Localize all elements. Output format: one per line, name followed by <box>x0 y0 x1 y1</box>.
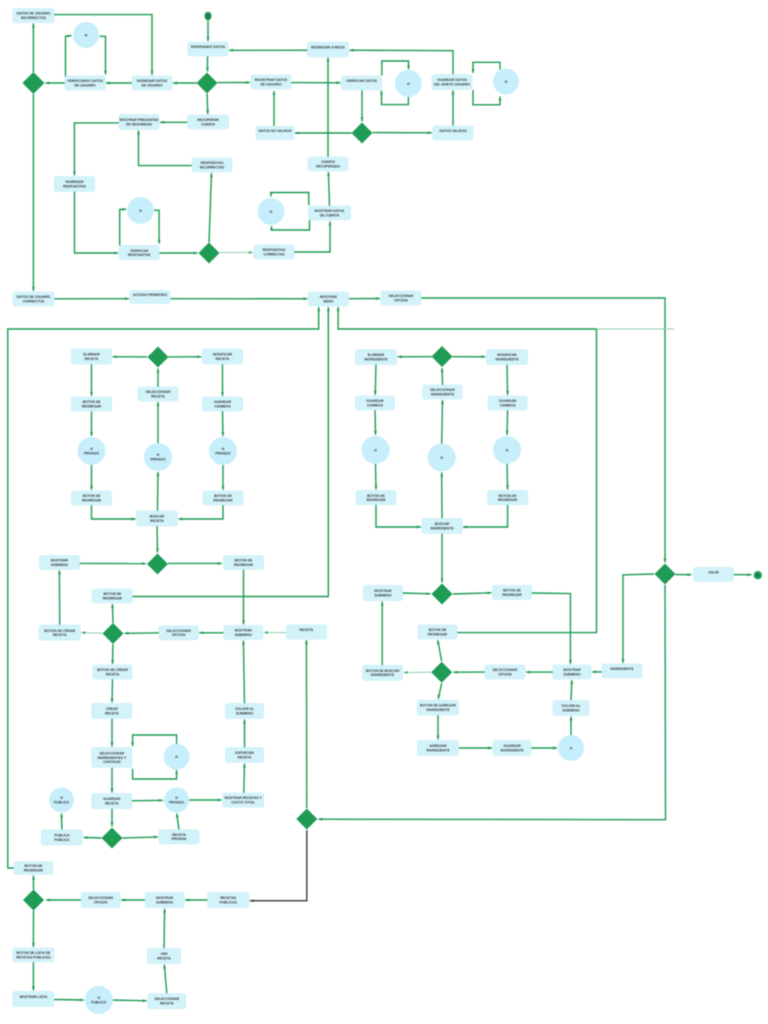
action b9: REGISTRAR DATOS DE USUARIO <box>251 75 291 89</box>
history node c13: H <box>493 69 519 95</box>
wire: decision to RECETA <box>305 640 308 808</box>
wire: loop VERIFICANDO DATOS / H <box>66 35 108 77</box>
wire: VOLVER AL SUBMENU to MOSTRAR SUBMENU <box>242 641 245 704</box>
svg-text:RECETA: RECETA <box>151 395 165 399</box>
wire: decision to BOTON DE REGRESAR <box>32 876 35 890</box>
wire: INGRESAR DATOS to VERIFICANDO DATOS <box>106 82 132 85</box>
action b87: MOSTRAR SUBMENU <box>553 665 591 679</box>
action b33: ELIMINAR RECETA <box>72 349 112 364</box>
svg-text:CAMBIOS: CAMBIOS <box>214 405 231 409</box>
action b31: MOSTRAR MENU <box>308 292 348 306</box>
svg-text:DATOS VALIDOS: DATOS VALIDOS <box>439 129 467 133</box>
action b56: SELECCIONAR INGREDIENTES Y CANTIDAD <box>92 748 132 768</box>
svg-text:REGRESAR: REGRESAR <box>498 498 518 502</box>
decision d46 <box>147 554 168 575</box>
svg-text:SUBMENU: SUBMENU <box>51 563 69 567</box>
wire: MOSTRAR SUBMENU to decision <box>80 562 147 565</box>
wire: PUBLICA to H PUBLICO <box>60 814 63 830</box>
wire: decision to MODIFICAR INGREDIENTE <box>453 355 486 358</box>
history node c93: H <box>558 735 584 761</box>
wire: RECETA to MOSTRAR SUBMENU <box>264 631 287 634</box>
action b37: BOTON DE REGRESAR <box>72 397 112 411</box>
decision d81 <box>432 584 453 605</box>
wire: VER RECETA to MOSTRAR SUBMENU <box>163 909 166 949</box>
wire: decision to RECUPERAR CUENTA <box>206 94 209 115</box>
wire: decision to DATOS CORRECTOS <box>32 94 35 291</box>
wire: exit decision to INGREDIENTE <box>622 574 655 663</box>
wire: GUARDAR CAMBIOS to H <box>506 410 509 435</box>
action b61: MOSTRAR RECETAS Y COSTO TOTAL <box>223 793 264 807</box>
action b101: RECETAS PUBLICAS <box>208 893 249 908</box>
wire: DATOS CORRECTOS to ACCESO PERMITIDO <box>54 297 129 300</box>
wire: BOTON DE CREAR RECETA to MOSTRAR SUBMENU <box>58 571 61 626</box>
svg-text:DE USUARIO: DE USUARIO <box>260 82 282 86</box>
action b65: VOLVER AL SUBMENU <box>226 704 264 719</box>
decision d85 <box>431 662 452 683</box>
action b4: INGRESAR DATOS DE USUARIO <box>132 76 172 90</box>
wire: decision to BOTON DE AGREGAR <box>438 683 442 699</box>
history node c59: H PUBLICO <box>49 788 74 813</box>
svg-text:INCORRECTOS: INCORRECTOS <box>21 16 47 20</box>
wire: MOSTRAR LISTA to H PUBLICO <box>54 999 84 1002</box>
svg-text:RECETAS PUBLICAS: RECETAS PUBLICAS <box>16 955 51 959</box>
svg-text:OPCION: OPCION <box>498 672 512 676</box>
wire: VERIFICAR RESPUESTAS to decision <box>159 252 198 255</box>
history node c104: H PUBLICO <box>85 986 113 1014</box>
wire: BOTON DE REGRESAR to MOSTRAR MENU <box>132 307 329 597</box>
wire: decision to BOTON DE REGRESAR <box>437 640 442 661</box>
wire: decision to INGRESAR DATOS <box>173 82 197 85</box>
action b47: BOTON DE REGRESAR <box>224 556 264 570</box>
svg-text:REGRESAR A INICIO: REGRESAR A INICIO <box>311 46 345 50</box>
svg-text:MOSTRAR LISTA: MOSTRAR LISTA <box>20 995 48 999</box>
wire: MOSTRAR SUBMENU to SELECCIONAR OPCION <box>121 899 145 902</box>
decision d2 <box>352 123 373 144</box>
wire: BOTON DE AGREGAR to AGREGAR INGREDIENTE <box>437 715 440 740</box>
action b54: BOTON DE CREAR RECETA <box>93 665 132 679</box>
action b38: GUARDAR CAMBIOS <box>203 397 243 411</box>
action b20: RESPUESTAS INCORRECTAS <box>192 158 232 172</box>
action b68: ELIMINAR INGREDIENTE <box>356 350 397 365</box>
svg-text:INGREDIENTE: INGREDIENTE <box>371 673 395 677</box>
wire: H to VOLVER AL SUBMENU <box>570 717 573 736</box>
action b102: BOTON DE LISTA DE RECETAS PUBLICAS <box>13 948 54 962</box>
action b6: ESPERANDO DATOS <box>188 42 228 56</box>
wire: loop GUARDAR DATOS / H <box>472 62 502 105</box>
svg-text:PRIVADA: PRIVADA <box>171 837 187 841</box>
history node c22: H <box>127 197 154 224</box>
history node c76: H <box>493 436 521 464</box>
action b66: EXPORTAR RECETA <box>226 748 264 763</box>
wire: H to BOTON DE REGRESAR <box>375 464 378 490</box>
action b25: RESPUESTAS CORRECTAS <box>254 245 294 259</box>
wire: EXPORTAR RECETA to VOLVER AL SUBMENU <box>243 720 246 748</box>
wire: MOSTRAR SUBMENU to decision <box>403 592 431 595</box>
wire: MOSTRAR SUBMENU to SELECCIONAR OPCION <box>526 671 553 674</box>
wire: GUARDAR RECETA to decision <box>111 809 114 827</box>
wire: BUSCAR RECETA to decision <box>156 526 159 553</box>
action b29: DATOS DE USUARIO CORRECTOS <box>13 292 54 306</box>
svg-text:PRIVADO: PRIVADO <box>84 452 100 456</box>
action b73: GUARDAR CAMBIOS <box>488 396 527 410</box>
wire: BUSCAR INGREDIENTE to decision <box>441 534 444 583</box>
action b18: RECUPERAR CUENTA <box>188 115 229 129</box>
svg-text:DATOS NO VALIDOS: DATOS NO VALIDOS <box>258 129 292 133</box>
wire: decision to RESPUESTAS INCORRECTAS <box>209 173 213 243</box>
wire: H to SELECCIONAR INGREDIENTE <box>441 400 444 444</box>
action b12: GUARDAR DATOS DEL NUEVO USUARIO <box>432 75 472 90</box>
svg-text:REGRESAR: REGRESAR <box>24 868 44 872</box>
action b80: MOSTRAR SUBMENU <box>364 586 403 601</box>
wire: decision to RECETA PRIVADA <box>123 836 159 839</box>
wire: BOTON DE REGRESAR bottom to MOSTRAR MENU <box>8 307 320 868</box>
decision d63 <box>102 828 123 849</box>
svg-text:RECETA: RECETA <box>238 755 252 759</box>
wire: H PRIVADO to BOTON DE REGRESAR <box>90 465 93 490</box>
wire: GUARDAR RECETA to H PRIVADO <box>132 799 163 802</box>
svg-text:INCORRECTAS: INCORRECTAS <box>200 166 225 170</box>
svg-text:ACCESO PERMITIDO: ACCESO PERMITIDO <box>133 293 168 297</box>
wire: RECETA PRIVADA to H PRIVADO <box>176 814 179 830</box>
action b49: BOTON DE CREAR RECETA <box>39 625 80 640</box>
wire: loop MOSTRAR DATOS / H <box>270 193 310 231</box>
svg-text:REGRESAR: REGRESAR <box>213 499 233 503</box>
wire: DATOS INCORRECTOS to INGRESAR DATOS <box>54 15 153 75</box>
svg-text:REGRESAR: REGRESAR <box>82 499 102 503</box>
history node c2: H <box>73 22 99 48</box>
action b21: INGRESAR RESPUESTAS <box>55 177 95 192</box>
wire: BOTON DE REGRESAR to MOSTRAR SUBMENU <box>532 593 572 664</box>
start node <box>205 12 212 21</box>
wire: decision to BOTON DE BUSCAR <box>404 671 432 674</box>
svg-text:REGRESAR: REGRESAR <box>366 498 386 502</box>
wire: SELECCIONAR INGREDIENTES to GUARDAR RECETA <box>111 768 114 793</box>
action b17: DATOS VALIDOS <box>433 126 473 140</box>
decision d50 <box>103 623 124 644</box>
svg-text:RECETA: RECETA <box>106 672 120 676</box>
svg-text:RECETA: RECETA <box>85 357 99 361</box>
wire: MOSTRAR RECETAS to EXPORTAR RECETA <box>243 764 246 794</box>
wire: BOTON DE REGRESAR to BUSCAR RECETA <box>179 505 224 521</box>
history node c60: H PRIVADO <box>164 788 189 813</box>
svg-text:REGRESAR: REGRESAR <box>103 596 123 600</box>
action b10: VERIFICAR DATOS <box>342 76 382 90</box>
svg-text:RECETA: RECETA <box>105 711 119 715</box>
action b45: MOSTRAR SUBMENU <box>40 556 80 570</box>
action b106: VER RECETA <box>148 949 181 964</box>
wire: SELECCIONAR INGREDIENTE to decision <box>441 368 444 385</box>
svg-text:SALIR: SALIR <box>708 571 719 575</box>
svg-text:MENU: MENU <box>323 300 334 304</box>
svg-text:CAMBIOS: CAMBIOS <box>500 404 517 408</box>
action b52: MOSTRAR SUBMENU <box>224 626 263 640</box>
action b48: BOTON DE REGRESAR <box>92 589 132 603</box>
action b89: BOTON DE AGREGAR INGREDIENTE <box>418 700 459 715</box>
action b27: MOSTRAR DATOS DE CUENTA <box>309 206 351 220</box>
svg-text:RESPUESTAS: RESPUESTAS <box>63 185 86 189</box>
decision d1 <box>197 73 218 94</box>
action b32: SELECCIONAR OPCION <box>381 291 421 305</box>
wire: decision to BOTON DE CREAR RECETA <box>81 631 102 634</box>
svg-text:CORRECTAS: CORRECTAS <box>263 253 285 257</box>
wire: INGRESAR RESPUESTAS to VERIFICAR RESPUESTAS <box>75 192 119 255</box>
wire: RECETAS PUBLICAS to MOSTRAR SUBMENU <box>185 899 208 902</box>
wire: loop VERIFICAR RESPUESTAS / H <box>120 208 161 246</box>
svg-text:PUBLICO: PUBLICO <box>91 1000 107 1004</box>
action b55: CREAR RECETA <box>92 704 132 719</box>
wire: H PRIVADO to SELECCIONAR RECETA <box>157 402 160 443</box>
wire: GUARDAR CAMBIOS to H PRIVADO <box>222 411 225 436</box>
action b15: DATOS NO VALIDOS <box>256 127 294 140</box>
wire: BOTON DE CREAR RECETA to CREAR RECETA <box>111 679 114 703</box>
wire: BOTON DE REGRESAR to BUSCAR INGREDIENTE <box>463 505 508 529</box>
action b99: SELECCIONAR OPCION <box>81 893 120 908</box>
wire: RESPUESTAS CORRECTAS to MOSTRAR DATOS <box>294 222 331 253</box>
wire: SELECCIONAR RECETA to VER RECETA <box>163 965 167 994</box>
wire: SELECCIONAR OPCION to decision <box>453 671 485 674</box>
action b58: GUARDAR RECETA <box>92 794 132 809</box>
svg-text:ESPERANDO DATOS: ESPERANDO DATOS <box>191 45 226 49</box>
wire: BOTON DE REGRESAR ingredientes to MOSTRAR MENU <box>337 307 597 633</box>
history node c11: H <box>395 70 422 97</box>
wire: SELECCIONAR RECETA to decision <box>157 369 160 388</box>
wire: SALIR to end <box>734 573 752 576</box>
wire: ELIMINAR RECETA to BOTON DE REGRESAR <box>90 364 93 396</box>
action b92: GUARDAR INGREDIENTE <box>493 741 531 756</box>
action b78: BOTON DE REGRESAR <box>488 491 528 505</box>
svg-text:CAMBIOS: CAMBIOS <box>367 404 384 408</box>
svg-text:SUBMENU: SUBMENU <box>562 708 580 712</box>
svg-text:CANTIDAD: CANTIDAD <box>103 760 121 764</box>
svg-text:DE USUARIO: DE USUARIO <box>141 83 163 87</box>
history node c57: H <box>164 744 190 770</box>
svg-text:PRIVADO: PRIVADO <box>169 800 185 804</box>
svg-text:RECETA: RECETA <box>300 628 314 632</box>
svg-text:PRIVADO: PRIVADO <box>150 458 166 462</box>
wire: loop VERIFICAR DATOS / H <box>380 61 410 105</box>
wire: decision to DATOS VALIDOS <box>373 131 433 134</box>
decision d34 <box>148 347 169 368</box>
wire: H PRIVADO to MOSTRAR RECETAS <box>189 799 221 802</box>
wire: H PUBLICO to SELECCIONAR RECETA <box>113 999 147 1002</box>
svg-text:SUBMENU: SUBMENU <box>563 672 581 676</box>
wire: BOTON DE REGRESAR to BUSCAR INGREDIENTE <box>376 505 421 529</box>
action b105: SELECCIONAR RECETA <box>148 994 186 1009</box>
wire: exit decision to SALIR <box>676 573 692 576</box>
history node c26: H <box>258 198 285 225</box>
decision d69 <box>432 346 453 367</box>
wire: loop SELECCIONAR INGREDIENTES / H <box>131 735 178 779</box>
wire: REGISTRAR DATOS to VERIFICAR DATOS <box>291 81 341 84</box>
action b51: SELECCIONAR OPCION <box>159 626 198 640</box>
svg-text:RECETA: RECETA <box>150 519 164 523</box>
wire: MODIFICAR RECETA to GUARDAR CAMBIOS <box>221 364 224 396</box>
svg-text:REGRESAR: REGRESAR <box>234 563 254 567</box>
wire: decision to DATOS NO VALIDOS <box>295 132 352 135</box>
svg-text:INGREDIENTE: INGREDIENTE <box>426 748 450 752</box>
end node <box>754 571 762 579</box>
action b30: ACCESO PERMITIDO <box>130 291 170 304</box>
wire: H to BOTON DE REGRESAR <box>506 464 509 490</box>
wire: decision to RECETAS PUBLICAS black <box>250 830 307 902</box>
wire: AGREGAR INGREDIENTE to GUARDAR INGREDIENTE <box>459 747 492 750</box>
svg-text:SUBMENU: SUBMENU <box>374 593 392 597</box>
action b3: VERIFICANDO DATOS DE USUARIO <box>65 76 105 90</box>
decision d3 <box>199 243 220 264</box>
wire: decision to BOTON DE REGRESAR <box>453 592 492 595</box>
action b14: REGRESAR A INICIO <box>308 42 349 57</box>
action b28: CUENTA RECUPERADA <box>308 157 348 171</box>
svg-text:INGREDIENTE: INGREDIENTE <box>500 748 524 752</box>
wire: H PRIVADO to BOTON DE REGRESAR <box>222 465 225 490</box>
wire: BOTON DE REGRESAR to H PRIVADO <box>90 411 93 436</box>
wire: decision to PUBLICA <box>84 836 102 839</box>
wire: MOSTRAR SUBMENU to SELECCIONAR OPCION <box>199 631 224 634</box>
svg-text:INGREDIENTE: INGREDIENTE <box>610 667 634 671</box>
svg-text:RECETA: RECETA <box>216 357 230 361</box>
wire: ESPERANDO DATOS to decision <box>206 56 209 72</box>
svg-text:PUBLICO: PUBLICO <box>54 800 70 804</box>
wire: BOTON DE REGRESAR to MOSTRAR SUBMENU <box>242 570 245 625</box>
wire: SELECCIONAR OPCION to decision <box>125 632 160 635</box>
wire: DATOS VALIDOS to GUARDAR DATOS <box>452 91 455 126</box>
action b97: BOTON DE REGRESAR <box>14 862 53 875</box>
decision d0 <box>22 72 44 94</box>
wire: ELIMINAR INGREDIENTE to GUARDAR CAMBIOS <box>374 365 377 396</box>
svg-text:INGREDIENTE: INGREDIENTE <box>430 526 454 530</box>
action b83: BOTON DE REGRESAR <box>418 625 457 639</box>
wire: VERIFICANDO DATOS to decision <box>46 82 66 85</box>
history node c40: H PRIVADO <box>144 443 172 471</box>
wire: REGRESAR A INICIO to ESPERANDO DATOS <box>229 49 308 52</box>
svg-text:SUBMENU: SUBMENU <box>235 633 253 637</box>
action b35: MODIFICAR RECETA <box>203 349 243 364</box>
svg-text:RECETA: RECETA <box>160 1001 174 1005</box>
wire: GUARDAR CAMBIOS to H <box>374 410 377 435</box>
wire: BOTON DE LISTA to MOSTRAR LISTA <box>32 962 35 991</box>
svg-text:CUENTA: CUENTA <box>201 122 215 126</box>
action b71: SELECCIONAR INGREDIENTE <box>423 385 462 399</box>
wire: BUSCAR RECETA to H PRIVADO <box>157 472 160 511</box>
svg-text:OPCION: OPCION <box>94 900 108 904</box>
svg-text:INGREDIENTE: INGREDIENTE <box>495 358 519 362</box>
wire: CREAR RECETA to SELECCIONAR INGREDIENTES <box>111 719 114 747</box>
action b82: BOTON DE REGRESAR <box>493 586 532 600</box>
wire: RECUPERAR CUENTA to MOSTRAR PREGUNTAS <box>160 121 188 124</box>
action b64: RECETA PRIVADA <box>159 830 199 844</box>
svg-text:DE USUARIO: DE USUARIO <box>74 83 96 87</box>
wire: BOTON DE REGRESAR to BUSCAR RECETA <box>92 505 136 521</box>
svg-text:OPCION: OPCION <box>394 299 408 303</box>
wire: INGREDIENTE to MOSTRAR SUBMENU <box>592 670 602 673</box>
wire: GUARDAR INGREDIENTE to H <box>531 747 557 750</box>
wire: decision to MODIFICAR RECETA <box>169 355 202 358</box>
wire: BUSCAR INGREDIENTE to H <box>440 473 443 519</box>
svg-text:PUBLICAS: PUBLICAS <box>220 900 238 904</box>
decision d98 <box>23 890 44 911</box>
action b84: BOTON DE BUSCAR INGREDIENTE <box>363 665 403 680</box>
wire: decision to BOTON DE REGRESAR <box>168 562 222 565</box>
svg-text:SUBMENU: SUBMENU <box>236 711 254 715</box>
wire: decision to ELIMINAR RECETA <box>113 355 148 358</box>
wire: MOSTRAR PREGUNTAS to INGRESAR RESPUESTAS <box>73 123 119 176</box>
action b62: PUBLICA PUBLICA <box>41 830 82 845</box>
wire: decision to DATOS INCORRECTOS <box>32 24 35 73</box>
wire: SELECCIONAR OPCION to decision <box>46 899 81 902</box>
svg-text:DEL NUEVO USUARIO: DEL NUEVO USUARIO <box>434 82 471 86</box>
action b42: BOTON DE REGRESAR <box>72 491 112 505</box>
wire: DATOS NO VALIDOS to REGISTRAR DATOS <box>273 91 276 126</box>
svg-text:DE SEGURIDAD: DE SEGURIDAD <box>126 122 153 126</box>
wire: decision to REGISTRAR DATOS <box>218 81 251 84</box>
svg-text:VERIFICAR DATOS: VERIFICAR DATOS <box>346 79 378 83</box>
wire: start to ESPERANDO DATOS <box>207 21 210 42</box>
wire: RESPUESTAS INCORRECTAS to MOSTRAR PREGUNTAS <box>137 131 192 166</box>
action b19: MOSTRAR PREGUNTAS DE SEGURIDAD <box>119 115 159 130</box>
svg-text:RESPUESTAS: RESPUESTAS <box>128 253 151 257</box>
history node c74: H <box>362 436 390 464</box>
wire: decision to BOTON DE LISTA <box>32 911 35 948</box>
decision d94 <box>655 564 676 585</box>
wire: GUARDAR DATOS to REGRESAR A INICIO <box>350 49 454 75</box>
wire: MOSTRAR DATOS to CUENTA RECUPERADA <box>327 172 330 206</box>
wire: faint line right of ingredient return <box>597 328 675 330</box>
action b70: MODIFICAR INGREDIENTE <box>487 350 528 365</box>
history node c39: H PRIVADO <box>78 437 106 465</box>
action b103: MOSTRAR LISTA <box>13 992 54 1007</box>
action b86: SELECCIONAR OPCION <box>485 665 525 679</box>
svg-text:CORRECTOS: CORRECTOS <box>23 300 45 304</box>
action b1: DATOS DE USUARIO INCORRECTOS <box>13 9 54 23</box>
action b23: VERIFICAR RESPUESTAS <box>119 246 159 260</box>
svg-text:PUBLICA: PUBLICA <box>54 838 70 842</box>
action b44: BUSCAR RECETA <box>137 511 178 526</box>
wire: decision to BOTON DE REGRESAR <box>111 604 114 623</box>
action b88: INGREDIENTE <box>602 664 642 678</box>
wire: decision to ELIMINAR INGREDIENTE <box>398 355 432 358</box>
svg-text:COSTO TOTAL: COSTO TOTAL <box>231 800 255 804</box>
svg-text:RECUPERADA: RECUPERADA <box>316 165 340 169</box>
history node c75: H <box>428 444 456 472</box>
action b90: VOLVER AL SUBMENU <box>553 701 589 716</box>
action b43: BOTON DE REGRESAR <box>203 491 243 505</box>
svg-text:REGRESAR: REGRESAR <box>502 593 522 597</box>
svg-text:OPCION: OPCION <box>172 633 186 637</box>
svg-text:RECETA: RECETA <box>105 801 119 805</box>
action b79: BUSCAR INGREDIENTE <box>422 519 462 534</box>
wire: VOLVER AL SUBMENU to MOSTRAR SUBMENU <box>570 680 573 701</box>
svg-text:REGRESAR: REGRESAR <box>82 405 102 409</box>
wire: BOTON DE BUSCAR to MOSTRAR SUBMENU <box>381 602 384 666</box>
action b36: SELECCIONAR RECETA <box>138 387 178 401</box>
wire: decision to RESPUESTAS CORRECTAS <box>220 251 254 254</box>
wire: MODIFICAR INGREDIENTE to GUARDAR CAMBIOS <box>506 365 509 396</box>
svg-text:INGREDIENTE: INGREDIENTE <box>431 393 455 397</box>
svg-text:DE CUENTA: DE CUENTA <box>320 214 340 218</box>
wire: MOSTRAR MENU to SELECCIONAR OPCION <box>349 297 380 300</box>
action b95: SALIR <box>694 568 734 582</box>
action b91: AGREGAR INGREDIENTE <box>418 741 459 756</box>
action b100: MOSTRAR SUBMENU <box>145 893 184 908</box>
wire: exit decision to recipes decision <box>318 585 665 821</box>
wire: SELECCIONAR OPCION to exit decision <box>421 298 667 563</box>
action b77: BOTON DE REGRESAR <box>356 491 396 505</box>
svg-text:REGRESAR: REGRESAR <box>428 632 448 636</box>
wire: VERIFICAR DATOS to decision <box>361 90 364 121</box>
decision d67 <box>296 809 317 830</box>
svg-text:PRIVADO: PRIVADO <box>215 452 231 456</box>
action b72: GUARDAR CAMBIOS <box>356 396 395 410</box>
